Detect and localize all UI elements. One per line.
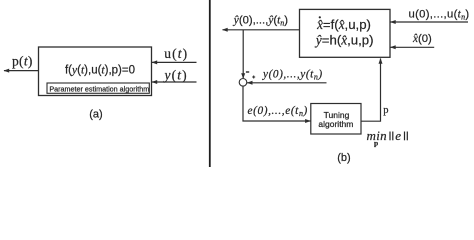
label plus sign [252, 76, 255, 79]
svg-text:ŷ=h(x̂,u,p): ŷ=h(x̂,u,p) [314, 32, 374, 47]
svg-text:e: e [395, 128, 401, 143]
svg-text:x̂(0): x̂(0) [412, 33, 432, 45]
wire y(t) input arrow (diagram a) [152, 80, 197, 84]
svg-text:Parameter estimation algorithm: Parameter estimation algorithm [49, 84, 149, 93]
summing junction circle [239, 79, 247, 87]
dot above x-hat in equation 1 [319, 16, 321, 18]
block: Parameter estimation algorithm inner box [47, 83, 149, 93]
svg-text:e(0),...,e(tn): e(0),...,e(tn) [248, 105, 308, 118]
wire y(0)...y(tn) measurement input into summing junction [247, 81, 327, 85]
wire u(t) input arrow (diagram a) [152, 60, 197, 64]
svg-text:ŷ(0),...,ŷ(tn): ŷ(0),...,ŷ(tn) [233, 15, 288, 28]
wire error e from summing junction down and right to tuning box [243, 86, 311, 123]
wire p parameter feedback from tuning box up into model box [361, 58, 383, 121]
svg-text:u(t): u(t) [164, 46, 188, 61]
block: Tuning algorithm box [311, 104, 361, 135]
label minus sign [246, 71, 249, 72]
svg-text:u(0),...,u(tn): u(0),...,u(tn) [409, 9, 470, 22]
wire x-hat(0) initial condition input [390, 45, 434, 49]
wire u(0)...u(tn) input (diagram b) [390, 20, 468, 24]
wire branch from y-hat line down to summing junction [241, 30, 245, 79]
svg-text:p: p [374, 138, 378, 147]
svg-text:algorithm: algorithm [318, 119, 353, 129]
svg-text:y(0),...,y(tn): y(0),...,y(tn) [262, 69, 323, 82]
svg-text:f(y(t),u(t),p)=0: f(y(t),u(t),p)=0 [65, 65, 135, 77]
svg-text:x̂=f(x̂,u,p): x̂=f(x̂,u,p) [316, 17, 371, 32]
divider line between (a) and (b) [209, 0, 211, 167]
svg-text:(a): (a) [89, 109, 102, 121]
svg-text:p: p [383, 105, 388, 116]
wire y-hat output to the left [222, 28, 300, 32]
svg-text:y(t): y(t) [163, 68, 188, 83]
svg-text:(b): (b) [337, 152, 350, 164]
block: f(y(t),u(t),p)=0 outer box [39, 47, 152, 96]
svg-text:p(t): p(t) [12, 54, 33, 69]
wire p(t) output arrow (diagram a) [4, 69, 39, 73]
block: model box with equations (diagram b) [300, 9, 391, 57]
